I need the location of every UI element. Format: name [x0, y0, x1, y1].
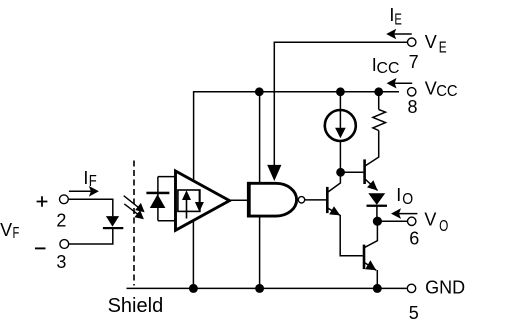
- svg-text:V: V: [425, 79, 437, 99]
- svg-text:I: I: [83, 168, 88, 188]
- svg-text:V: V: [424, 209, 436, 229]
- svg-text:O: O: [402, 191, 413, 208]
- svg-text:3: 3: [56, 252, 66, 272]
- svg-text:V: V: [0, 220, 12, 240]
- svg-text:7: 7: [409, 52, 419, 72]
- svg-text:CC: CC: [436, 83, 457, 100]
- svg-text:GND: GND: [425, 278, 465, 298]
- svg-text:E: E: [394, 12, 402, 29]
- svg-text:I: I: [396, 185, 401, 205]
- svg-text:2: 2: [56, 210, 66, 230]
- svg-text:F: F: [89, 173, 97, 190]
- svg-text:O: O: [439, 218, 448, 235]
- svg-text:F: F: [13, 225, 20, 242]
- svg-text:V: V: [425, 32, 437, 52]
- svg-text:E: E: [439, 39, 447, 56]
- svg-text:5: 5: [409, 303, 419, 323]
- svg-text:8: 8: [408, 97, 418, 117]
- svg-text:Shield: Shield: [108, 295, 164, 317]
- svg-text:CC: CC: [377, 60, 400, 77]
- svg-text:6: 6: [409, 229, 419, 249]
